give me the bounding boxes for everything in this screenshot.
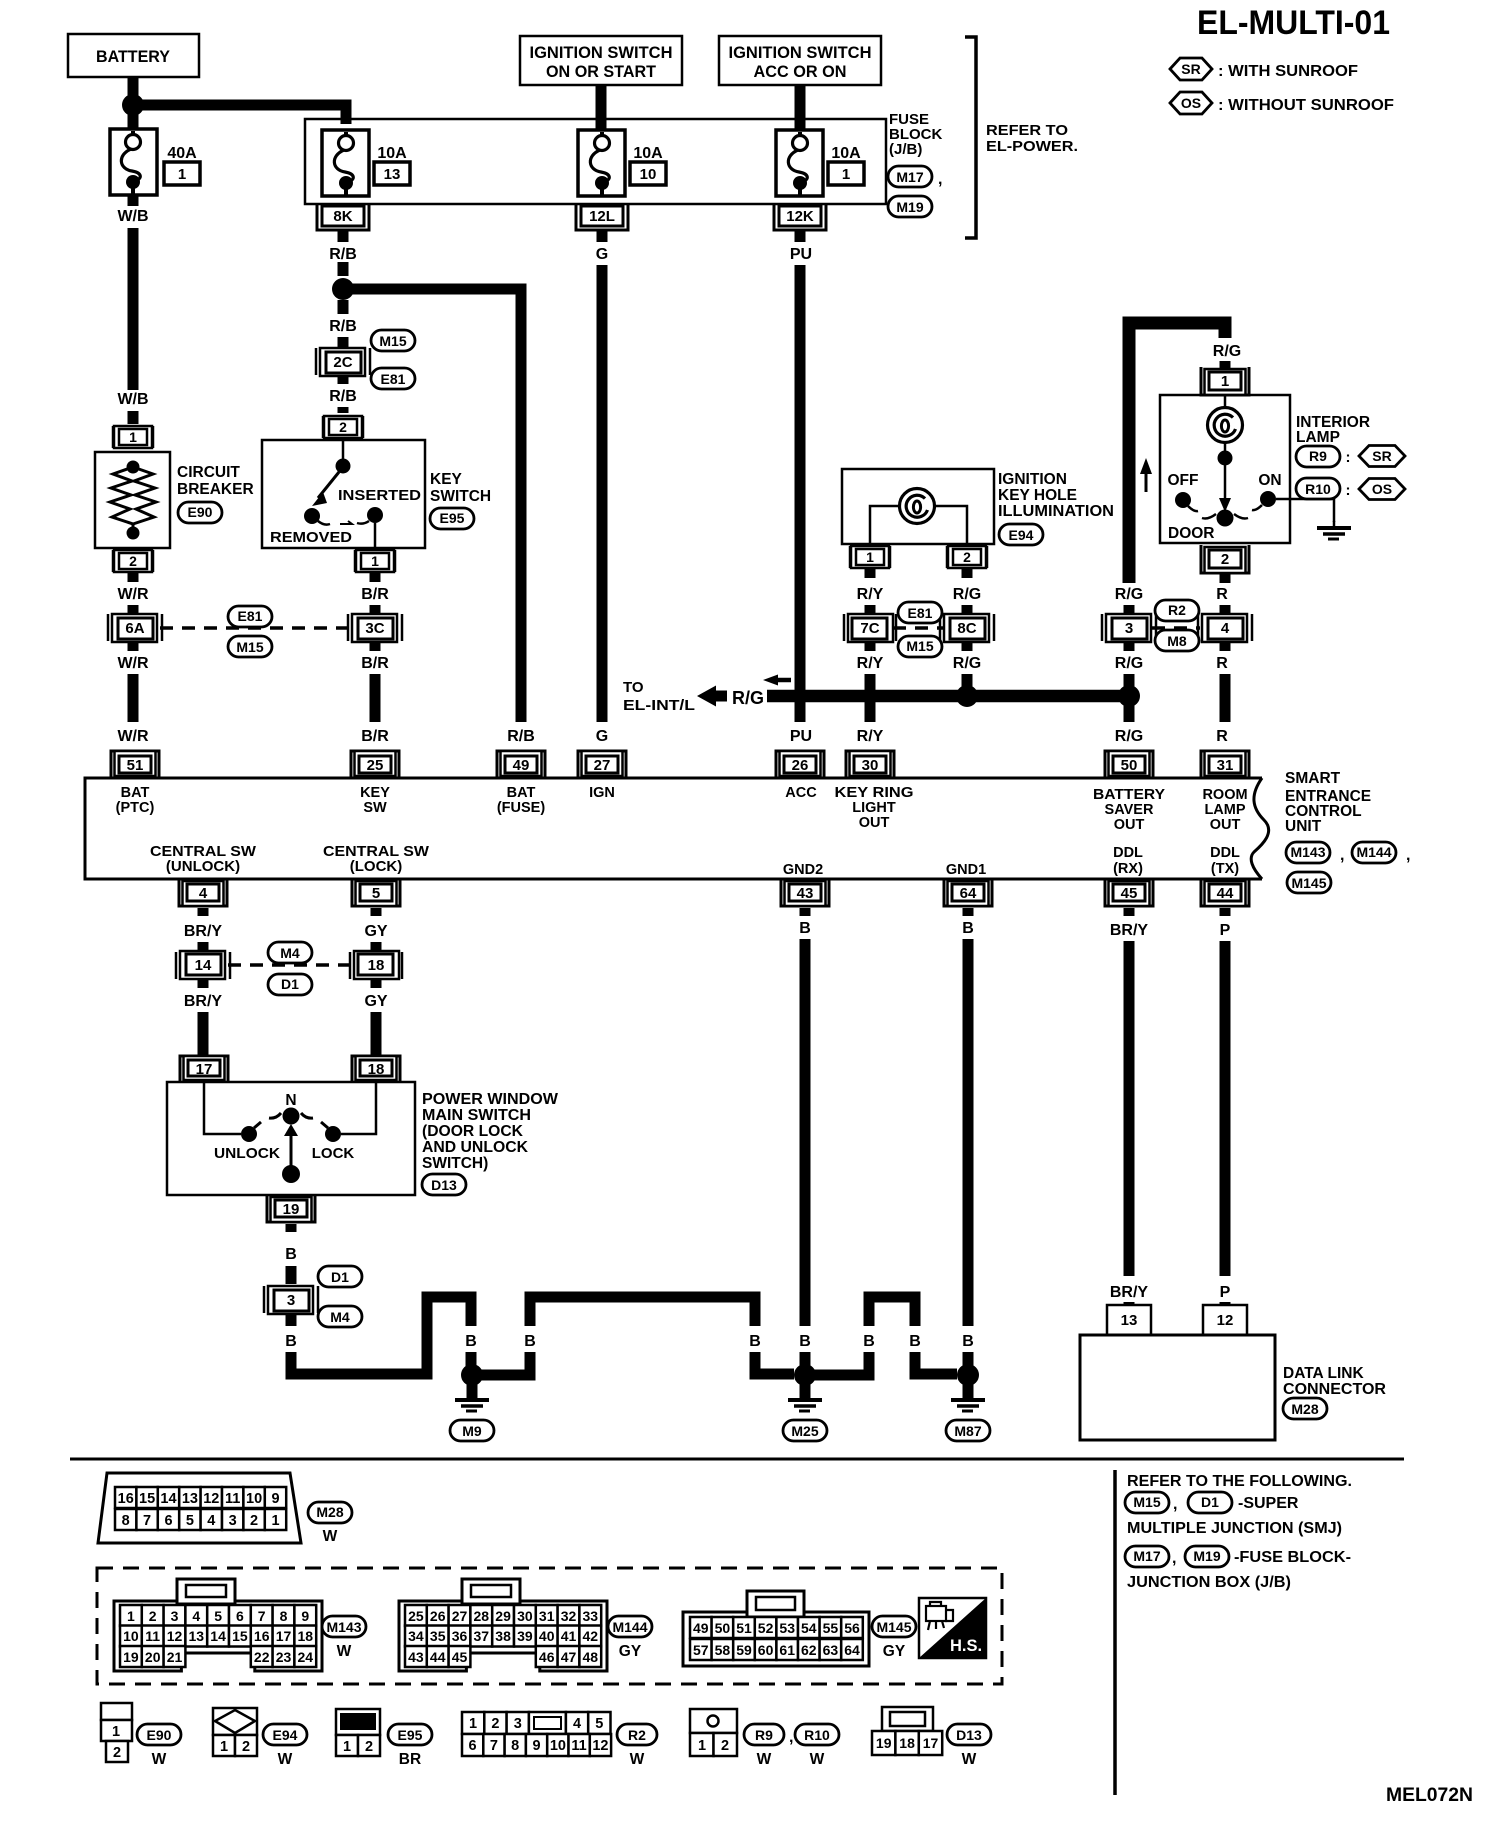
- svg-text:IGNITION SWITCH: IGNITION SWITCH: [530, 44, 673, 62]
- wire B to M9 ground: [291, 1297, 471, 1374]
- connector D13 (pinout): [872, 1707, 942, 1755]
- data link connector box: [1080, 1335, 1275, 1440]
- svg-text:GY: GY: [883, 1643, 906, 1660]
- wire DDL TX to 12: [1220, 1302, 1231, 1306]
- svg-text:6: 6: [164, 1513, 172, 1529]
- svg-text:24: 24: [298, 1649, 314, 1665]
- wire GND2 stub: [800, 908, 811, 916]
- svg-text:3: 3: [514, 1716, 522, 1732]
- wire R/Y to 7C: [865, 605, 876, 613]
- wire R/G bus: [767, 690, 1129, 703]
- wire DDL RX long: [1124, 941, 1135, 1276]
- wire R/G bus to 50: [1124, 703, 1135, 722]
- svg-text:IGNITION: IGNITION: [998, 471, 1067, 488]
- svg-text:M17: M17: [1133, 1548, 1160, 1564]
- connector 12L: [576, 203, 628, 230]
- svg-text:,: ,: [1172, 1550, 1176, 1567]
- svg-text:B: B: [799, 920, 811, 937]
- connector-ref M4 (3) oval: [318, 1306, 362, 1327]
- wire ign acc-on to fuse 1: [795, 85, 806, 130]
- dashed box (unit connectors): [97, 1568, 1002, 1684]
- wire R 4 down: [1220, 641, 1231, 651]
- svg-text:25: 25: [408, 1608, 424, 1624]
- svg-text:17: 17: [276, 1628, 292, 1644]
- wire B/R long: [370, 674, 381, 722]
- svg-text:R9: R9: [755, 1727, 773, 1743]
- svg-text:W: W: [278, 1751, 293, 1768]
- svg-text:W: W: [757, 1751, 772, 1768]
- svg-text:UNLOCK: UNLOCK: [214, 1145, 280, 1162]
- svg-text:1: 1: [178, 166, 186, 183]
- svg-text:IGNITION SWITCH: IGNITION SWITCH: [729, 44, 872, 62]
- svg-text:8K: 8K: [333, 208, 352, 225]
- connector-ref E90 (breaker) oval: [178, 502, 222, 523]
- wire GY stub: [371, 908, 382, 916]
- svg-text:KEY HOLE: KEY HOLE: [998, 487, 1077, 504]
- svg-text:39: 39: [517, 1628, 533, 1644]
- svg-text:12K: 12K: [786, 208, 814, 225]
- connector 2 (key hole illum): [947, 546, 987, 568]
- wire PU long: [795, 265, 806, 722]
- svg-text:30: 30: [862, 757, 879, 774]
- svg-text:R: R: [1216, 728, 1228, 745]
- wire R/G stub (8C): [962, 568, 973, 578]
- svg-text:M144: M144: [1356, 844, 1391, 860]
- node ground junction M9: [461, 1364, 483, 1386]
- svg-text:17: 17: [923, 1735, 939, 1751]
- svg-text:M4: M4: [280, 945, 300, 961]
- svg-text:ON OR START: ON OR START: [546, 63, 656, 81]
- svg-text:32: 32: [561, 1608, 577, 1624]
- svg-text:14: 14: [210, 1628, 226, 1644]
- svg-text:M145: M145: [876, 1619, 911, 1635]
- svg-text:64: 64: [960, 885, 977, 902]
- wire GND1 stub: [963, 908, 974, 916]
- wire R/B 2C down: [338, 375, 349, 384]
- connector-ref M17 (note) oval: [1125, 1546, 1169, 1567]
- svg-text:51: 51: [127, 757, 144, 774]
- connector 4 CENTRAL UNLOCK: [179, 879, 227, 906]
- connector-ref M143 (pinout) oval: [322, 1616, 366, 1637]
- svg-text:51: 51: [736, 1620, 752, 1636]
- svg-text:BAT: BAT: [121, 785, 150, 801]
- svg-text:1: 1: [371, 553, 379, 569]
- connector-ref M17 oval: [888, 166, 932, 187]
- svg-text:1: 1: [127, 1608, 135, 1624]
- svg-text:1: 1: [866, 549, 874, 565]
- connector-ref E95 (key switch) oval: [430, 508, 474, 529]
- connector-ref M144 (unit) oval: [1352, 842, 1396, 863]
- wire B riser to M9 dot: [466, 1352, 477, 1370]
- connector-ref M25 oval: [783, 1420, 827, 1441]
- svg-text:10: 10: [246, 1491, 262, 1507]
- node ground junction M25: [794, 1364, 816, 1386]
- svg-text:,: ,: [789, 1729, 793, 1746]
- connector 18 (SMJ): [350, 951, 402, 979]
- connector 3 (R2/M8): [1102, 614, 1156, 642]
- svg-text:PU: PU: [790, 246, 812, 263]
- connector 50 BATTERY SAVER: [1105, 751, 1153, 778]
- wire R/Y stub: [865, 568, 876, 578]
- connector-ref M143 (unit) oval: [1286, 842, 1330, 863]
- fuse 10A 10: [578, 130, 625, 196]
- svg-text:7: 7: [143, 1513, 151, 1529]
- node bus junction R/G main: [1118, 685, 1140, 707]
- svg-text:OFF: OFF: [1168, 472, 1199, 489]
- wire M25 to M87 link: [811, 1352, 869, 1375]
- svg-text:14: 14: [195, 957, 212, 974]
- svg-text:W/B: W/B: [117, 391, 148, 408]
- svg-text:27: 27: [594, 757, 611, 774]
- notes divider line: [1113, 1470, 1117, 1795]
- svg-text:(DOOR LOCK: (DOOR LOCK: [422, 1123, 524, 1140]
- svg-text:R/B: R/B: [329, 246, 357, 263]
- svg-text:W/B: W/B: [117, 208, 148, 225]
- svg-text:1: 1: [469, 1716, 477, 1732]
- connector 5 CENTRAL LOCK: [352, 879, 400, 906]
- svg-text:B/R: B/R: [361, 586, 389, 603]
- connector-ref R2 (pinout) oval: [617, 1724, 657, 1745]
- svg-text:KEY RING: KEY RING: [835, 785, 914, 801]
- svg-text:19: 19: [123, 1649, 139, 1665]
- svg-text:18: 18: [899, 1735, 915, 1751]
- svg-text:DOOR: DOOR: [1168, 525, 1215, 542]
- wire dashed 6A-3C: [160, 626, 350, 630]
- svg-text:37: 37: [474, 1628, 490, 1644]
- svg-text:1: 1: [129, 429, 137, 445]
- svg-text:E95: E95: [398, 1727, 423, 1743]
- connector-ref R9 (pinout) oval: [744, 1724, 784, 1745]
- wire GY 18 down: [371, 978, 382, 988]
- svg-text:B: B: [285, 1246, 297, 1263]
- svg-text:BR/Y: BR/Y: [1110, 1284, 1149, 1301]
- svg-text:2: 2: [149, 1608, 157, 1624]
- connector-ref M15 (note) oval: [1125, 1492, 1169, 1513]
- wire R long: [1220, 674, 1231, 722]
- fuse number box 1 (40A): [164, 162, 200, 185]
- node bus junction 8C: [956, 685, 978, 707]
- unit torn right edge: [1251, 778, 1268, 879]
- svg-text:2C: 2C: [333, 354, 352, 371]
- svg-text::: :: [1346, 449, 1351, 466]
- connector 3C: [348, 614, 402, 642]
- svg-text:12: 12: [203, 1491, 219, 1507]
- wire R/B to 2C: [338, 337, 349, 349]
- svg-text:12: 12: [167, 1628, 183, 1644]
- svg-text:26: 26: [430, 1608, 446, 1624]
- svg-text:2: 2: [963, 549, 971, 565]
- ignition switch ACC OR ON box: [719, 36, 881, 85]
- connector 14: [176, 951, 230, 979]
- svg-text:1: 1: [842, 166, 850, 183]
- svg-text:16: 16: [254, 1628, 270, 1644]
- svg-text:3: 3: [287, 1292, 295, 1309]
- direction arrow (interior lamp feed): [1145, 472, 1148, 492]
- connector 27 IGN: [578, 751, 626, 778]
- key hole illumination bulb: [870, 489, 967, 545]
- refer-to bracket: [965, 37, 976, 238]
- wire R to 4: [1220, 605, 1231, 613]
- connector-ref M15 (2C) oval: [371, 330, 415, 351]
- svg-text:E94: E94: [1009, 527, 1034, 543]
- svg-text:44: 44: [1217, 885, 1234, 902]
- svg-text:16: 16: [118, 1491, 134, 1507]
- svg-text:B: B: [909, 1333, 921, 1350]
- wire W/R to 6A: [128, 605, 139, 613]
- svg-text:3: 3: [1125, 620, 1133, 637]
- connector 26 ACC: [776, 751, 824, 778]
- wire M9 to long bus: [478, 1352, 530, 1375]
- svg-text:UNIT: UNIT: [1285, 818, 1322, 835]
- connector-ref D1 (3) oval: [318, 1266, 362, 1287]
- svg-text:B: B: [962, 1333, 974, 1350]
- ground M87: [951, 1384, 985, 1411]
- interior lamp switch: [1175, 465, 1276, 527]
- svg-text:E90: E90: [147, 1727, 172, 1743]
- svg-text:2: 2: [491, 1716, 499, 1732]
- wire B/R stub: [370, 572, 381, 582]
- svg-text:52: 52: [758, 1620, 774, 1636]
- wire R/B 8K to junction: [338, 231, 349, 276]
- svg-text:R/B: R/B: [329, 318, 357, 335]
- wire BR/Y long: [198, 1012, 209, 1058]
- svg-text:BR/Y: BR/Y: [1110, 922, 1149, 939]
- svg-text:59: 59: [736, 1642, 752, 1658]
- svg-text:SR: SR: [1181, 61, 1200, 77]
- svg-text:4: 4: [192, 1608, 200, 1624]
- svg-text:11: 11: [145, 1628, 160, 1644]
- svg-text:R10: R10: [804, 1727, 830, 1743]
- smart entrance control unit box: [85, 778, 1262, 879]
- svg-text:GY: GY: [364, 923, 387, 940]
- svg-text:55: 55: [823, 1620, 839, 1636]
- svg-text:50: 50: [715, 1620, 731, 1636]
- connector 1 (key hole illum): [850, 546, 890, 568]
- svg-text:LOCK: LOCK: [312, 1145, 355, 1162]
- svg-text:B: B: [524, 1333, 536, 1350]
- svg-text:LAMP: LAMP: [1296, 429, 1340, 446]
- svg-text:H.S.: H.S.: [950, 1637, 982, 1655]
- svg-text:R/G: R/G: [953, 655, 981, 672]
- svg-text:B: B: [799, 1333, 811, 1350]
- svg-text:5: 5: [595, 1716, 603, 1732]
- wire B long top run: [530, 1297, 755, 1326]
- svg-text:R/G: R/G: [732, 688, 764, 708]
- key switch box: [262, 440, 425, 548]
- svg-text:P: P: [1220, 922, 1231, 939]
- svg-text:P: P: [1220, 1284, 1231, 1301]
- svg-text:33: 33: [583, 1608, 599, 1624]
- svg-text:BR: BR: [399, 1751, 421, 1768]
- svg-text:ACC: ACC: [785, 785, 817, 801]
- connector-ref M145 (unit) oval: [1287, 872, 1331, 893]
- svg-text:20: 20: [145, 1649, 161, 1665]
- svg-text:19: 19: [283, 1201, 300, 1218]
- wire G stub: [597, 231, 608, 242]
- svg-text:OUT: OUT: [859, 815, 890, 831]
- connector 12K: [774, 203, 826, 230]
- svg-text:(PTC): (PTC): [116, 800, 155, 816]
- svg-text:OUT: OUT: [1210, 817, 1241, 833]
- svg-text:2: 2: [113, 1745, 121, 1761]
- svg-text:B/R: B/R: [361, 655, 389, 672]
- wire R/G 8C to bus: [962, 641, 973, 690]
- svg-text:B: B: [863, 1333, 875, 1350]
- connector 2 (circuit breaker): [113, 550, 153, 572]
- wire BR/Y to 14: [198, 942, 209, 950]
- svg-text:19: 19: [876, 1735, 892, 1751]
- connector 1 (interior lamp): [1201, 367, 1249, 395]
- svg-text:8: 8: [280, 1608, 288, 1624]
- svg-text:REFER TO: REFER TO: [986, 122, 1068, 139]
- node R/B junction: [332, 278, 354, 300]
- fuse 10A 13: [322, 130, 369, 196]
- interior lamp bulb: [1208, 395, 1243, 466]
- svg-text:W: W: [152, 1751, 167, 1768]
- svg-text::: :: [1346, 482, 1351, 499]
- wire W/B to breaker connector: [128, 411, 139, 424]
- wire PU stub: [795, 231, 806, 242]
- wire R/B branch to BAT FUSE: [343, 289, 521, 722]
- svg-text:26: 26: [792, 757, 809, 774]
- wire B 3 down: [286, 1313, 297, 1326]
- connector 45 DDL RX: [1105, 879, 1153, 906]
- connector E90 (pinout): [101, 1703, 132, 1762]
- svg-text:11: 11: [225, 1491, 240, 1507]
- svg-text:M143: M143: [326, 1619, 361, 1635]
- connector 19 (pw switch): [267, 1195, 315, 1222]
- connector 3 (D1/M4): [264, 1286, 318, 1314]
- svg-text:ILLUMINATION: ILLUMINATION: [998, 503, 1114, 520]
- node battery junction: [122, 94, 144, 116]
- connector 2 (interior lamp): [1201, 545, 1249, 573]
- svg-text:R9: R9: [1309, 448, 1327, 464]
- svg-text:1: 1: [1221, 373, 1229, 390]
- svg-text:OS: OS: [1181, 95, 1201, 111]
- svg-text:13: 13: [189, 1628, 205, 1644]
- svg-text:8: 8: [511, 1738, 519, 1754]
- arrow to EL-INT/L: [697, 686, 727, 707]
- connector 43 GND2: [781, 879, 829, 906]
- svg-text:22: 22: [254, 1649, 270, 1665]
- wire dashed 3-4: [1152, 626, 1200, 630]
- svg-text:R/G: R/G: [1115, 728, 1143, 745]
- svg-text:B: B: [749, 1333, 761, 1350]
- wire G long: [597, 265, 608, 722]
- svg-text:1: 1: [698, 1738, 706, 1754]
- svg-text:45: 45: [1121, 885, 1138, 902]
- svg-text:7: 7: [490, 1738, 498, 1754]
- small arrow on bus: [763, 675, 778, 686]
- svg-text:10: 10: [123, 1628, 139, 1644]
- connector-ref E94 (pinout) oval: [263, 1724, 307, 1745]
- svg-text:,: ,: [1406, 847, 1410, 864]
- ignition switch ON OR START box: [520, 36, 682, 85]
- wire GND2 long: [800, 939, 811, 1326]
- svg-text:M8: M8: [1167, 633, 1187, 649]
- svg-text:40: 40: [539, 1628, 555, 1644]
- svg-text:M28: M28: [1291, 1401, 1318, 1417]
- wire W/R stub: [128, 572, 139, 582]
- wire link down to M87: [915, 1352, 957, 1374]
- svg-text:42: 42: [583, 1628, 599, 1644]
- connector-ref R10 (pinout) oval: [795, 1724, 839, 1745]
- svg-text:48: 48: [583, 1649, 599, 1665]
- svg-text:R/G: R/G: [1115, 586, 1143, 603]
- svg-text:E81: E81: [381, 371, 406, 387]
- connector M28 (data link, trapezoid): [98, 1473, 301, 1543]
- wire fuse 40A down: [128, 195, 139, 206]
- svg-text:47: 47: [561, 1649, 577, 1665]
- svg-text:GY: GY: [364, 993, 387, 1010]
- connector-ref M15 (7C-8C) oval: [898, 636, 942, 657]
- svg-text:43: 43: [408, 1649, 424, 1665]
- circuit breaker element: [110, 461, 156, 540]
- svg-text:DATA LINK: DATA LINK: [1283, 1365, 1364, 1382]
- svg-text:10: 10: [640, 166, 657, 183]
- connector 30 KEY RING: [846, 751, 894, 778]
- svg-text:R/Y: R/Y: [857, 728, 884, 745]
- svg-text:R/G: R/G: [953, 586, 981, 603]
- svg-text:EL-INT/L: EL-INT/L: [623, 697, 695, 714]
- wire dashed 7C-8C: [893, 626, 945, 630]
- pw switch internal wiring: [204, 1082, 376, 1183]
- svg-text:N: N: [285, 1092, 296, 1109]
- svg-text:49: 49: [513, 757, 530, 774]
- svg-text:M145: M145: [1291, 875, 1326, 891]
- wire BR/Y 14 down: [198, 978, 209, 988]
- svg-text:6: 6: [236, 1608, 244, 1624]
- wire R/G riser to interior lamp: [1129, 323, 1225, 583]
- fuse block (J/B) outline: [305, 119, 886, 204]
- connector-ref D1 (note) oval: [1188, 1492, 1232, 1513]
- svg-text:2: 2: [129, 553, 137, 569]
- connector 7C: [844, 614, 896, 642]
- svg-text:17: 17: [196, 1061, 213, 1078]
- svg-text:10: 10: [550, 1738, 566, 1754]
- svg-text:R/G: R/G: [1115, 655, 1143, 672]
- wire DDL TX stub: [1220, 908, 1231, 916]
- wire B stub 19: [286, 1224, 297, 1232]
- wire W/B long: [128, 228, 139, 390]
- wire GND1 to dot: [963, 1352, 974, 1368]
- fuse 10A 1: [776, 130, 823, 196]
- ground (interior lamp): [1317, 521, 1351, 539]
- svg-text:54: 54: [801, 1620, 817, 1636]
- svg-text:DDL: DDL: [1210, 845, 1240, 861]
- svg-text:D1: D1: [331, 1269, 349, 1285]
- svg-text:R/Y: R/Y: [857, 586, 884, 603]
- fuse number box 13: [374, 162, 410, 185]
- connector 12 (DLC): [1203, 1305, 1247, 1335]
- connector-ref M19 oval: [888, 196, 932, 217]
- svg-text:49: 49: [693, 1620, 709, 1636]
- connector-ref E81 (2C) oval: [371, 368, 415, 389]
- ground M25: [788, 1384, 822, 1411]
- svg-text:ROOM: ROOM: [1202, 787, 1247, 803]
- svg-text:,: ,: [938, 171, 942, 188]
- connector-ref R10 oval: [1296, 478, 1340, 499]
- connector 8K: [317, 203, 369, 230]
- connector-ref E94 oval: [999, 524, 1043, 545]
- svg-text:DDL: DDL: [1113, 845, 1143, 861]
- svg-text:M9: M9: [462, 1423, 482, 1439]
- svg-text:8C: 8C: [957, 620, 976, 637]
- svg-text:W: W: [323, 1528, 338, 1545]
- connector E94 (pinout): [213, 1708, 257, 1756]
- svg-text:64: 64: [844, 1642, 860, 1658]
- wire dashed 14-18: [228, 963, 352, 967]
